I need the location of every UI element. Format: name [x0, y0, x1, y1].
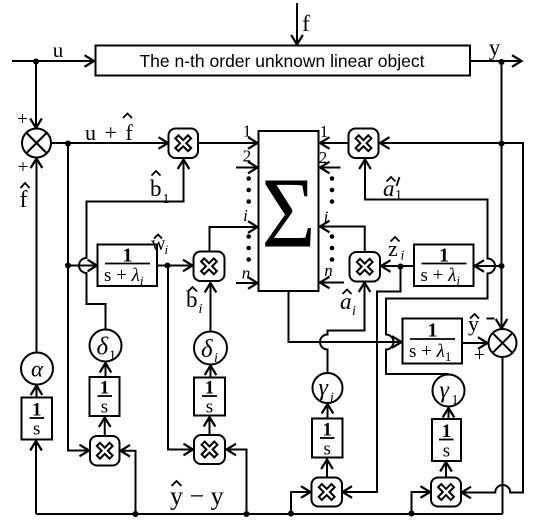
label w-hat-i	[151, 233, 169, 257]
wire MG1 to integrator I3	[321, 460, 333, 478]
wire integrator I2 to delta-i	[205, 366, 217, 378]
multiplier M3 (y times a1-prime-hat)	[349, 129, 379, 159]
wire integrator I1 to delta-1	[100, 363, 112, 377]
integrator I2 1/s	[194, 378, 225, 418]
svg-text:n: n	[242, 264, 251, 283]
wire integrator I4 to gamma-1	[443, 408, 455, 419]
wire y output	[470, 55, 522, 67]
wire F2 output z-hat-i into M4	[381, 260, 414, 272]
svg-text:s + λi: s + λi	[104, 265, 144, 288]
integrator I1 1/s	[90, 377, 120, 418]
wire error bottom bus	[36, 513, 503, 515]
label y-hat minus y	[170, 481, 224, 511]
circle delta-1	[90, 330, 122, 364]
node w-hat-i branch	[165, 263, 171, 269]
circle delta-i	[194, 332, 227, 367]
filter F3 1/(s+lambda_1)	[403, 319, 463, 365]
node error to MG1	[288, 511, 294, 517]
node error to MD2	[244, 511, 250, 517]
svg-text:1: 1	[109, 349, 116, 364]
svg-text:+: +	[17, 109, 28, 130]
svg-text:δ: δ	[201, 336, 213, 363]
svg-text:+: +	[18, 157, 29, 178]
svg-text:i: i	[243, 206, 248, 225]
svg-text:i: i	[165, 242, 169, 257]
stub arrow sigma left input 2	[236, 162, 258, 174]
stub arrow sigma left input n	[236, 277, 258, 289]
integrator I4 1/s	[432, 419, 461, 462]
svg-text:b: b	[150, 176, 162, 201]
wire M4 output to sigma right input i	[320, 221, 365, 252]
node error to MG2	[409, 511, 415, 517]
svg-text:i: i	[352, 304, 356, 319]
svg-text:The n-th order unknown linear: The n-th order unknown linear object	[139, 51, 424, 71]
multiplier M1 (u+f times b1)	[169, 129, 199, 159]
svg-text:α: α	[31, 357, 44, 382]
svg-text:f: f	[20, 187, 28, 213]
svg-text:y: y	[489, 35, 501, 60]
label u + f-hat	[85, 114, 134, 146]
summer S1	[22, 129, 51, 158]
wire F3 output y-hat to S2	[462, 337, 488, 349]
wire M3 output to sigma right input 1	[320, 137, 349, 149]
multiplier MD2 (delta-i loop)	[194, 435, 225, 464]
label a1-prime-hat	[383, 176, 402, 203]
svg-text:u + f: u + f	[85, 120, 134, 145]
wire error up into I5	[30, 441, 42, 514]
svg-text:i: i	[214, 351, 218, 366]
svg-text:s: s	[33, 419, 40, 440]
circle gamma-i	[313, 373, 343, 406]
svg-text:1: 1	[395, 188, 402, 203]
node z-hat-i branch	[398, 264, 404, 270]
svg-text:+: +	[474, 344, 485, 366]
node u+f branch	[65, 141, 71, 147]
wire S2 error output down	[502, 357, 504, 514]
stub arrow sigma right input 2	[320, 162, 341, 174]
wire a-hat-i from gamma-i to M4	[320, 283, 370, 373]
wire alpha output f-hat to S1	[31, 159, 43, 353]
wire y feedback down right side	[496, 62, 508, 329]
wire b1-hat from delta1 to M1	[79, 160, 189, 330]
svg-text:i: i	[199, 302, 203, 317]
wire error up into MD1 right	[121, 445, 136, 514]
multiplier M4 (z-hat-i times a-hat-i)	[350, 252, 381, 282]
label y-hat	[468, 311, 479, 336]
wire error up into MD2 right	[227, 444, 247, 514]
svg-text:f: f	[302, 11, 310, 36]
dots sigma right upper	[330, 176, 335, 204]
svg-text:s: s	[206, 397, 213, 418]
dots sigma left lower	[246, 234, 251, 262]
svg-text:1: 1	[243, 122, 252, 141]
svg-text:s: s	[324, 439, 331, 460]
wire integrator I3 to gamma-i	[322, 404, 334, 419]
wire y into right lambda-i filter	[475, 260, 502, 272]
wire error up into MG1 left	[291, 486, 311, 513]
filter F1 1/(s+lambda_i) left	[98, 245, 158, 289]
node error to MD1	[133, 511, 139, 517]
wire u+f branch down	[67, 144, 69, 266]
wire u input	[12, 55, 94, 67]
wire integrator I5 to alpha	[31, 386, 43, 398]
svg-text:Σ: Σ	[261, 157, 315, 268]
svg-text:i: i	[330, 391, 334, 406]
svg-text:u: u	[53, 38, 64, 62]
wire MD2 to integrator I2	[204, 417, 216, 435]
svg-text:s + λi: s + λi	[421, 265, 461, 288]
integrator I5 1/s	[22, 398, 53, 440]
wire b-hat-i from delta-i to M2	[205, 283, 217, 332]
summation block Sigma	[259, 131, 319, 291]
stub arrow sigma right input n	[320, 277, 344, 289]
dots sigma right lower	[330, 234, 335, 262]
wire F1 output w-hat-i	[157, 260, 193, 272]
label z-hat-i	[388, 236, 405, 264]
svg-text:y − y: y − y	[170, 482, 224, 511]
wire y to gamma-1 multiplier	[462, 143, 524, 498]
circle alpha	[21, 353, 53, 385]
wire MD1 to integrator I1	[99, 418, 111, 437]
integrator I3 1/s	[312, 419, 343, 460]
filter F2 1/(s+lambda_i) right	[414, 245, 474, 289]
wire S1 output u+f	[51, 137, 168, 149]
wire sigma output to lambda-1 filter	[289, 291, 402, 348]
wire error up into MG2 left	[412, 486, 431, 513]
wire into left lambda-i filter	[68, 260, 97, 272]
svg-text:s: s	[101, 397, 108, 418]
svg-text:s: s	[443, 441, 450, 462]
label a-hat-i	[340, 289, 356, 319]
node y to M3	[499, 141, 505, 147]
wire y into M3 right	[380, 137, 502, 149]
svg-text:γ: γ	[440, 378, 450, 404]
node y branch	[499, 59, 505, 65]
wire a1-prime-hat from gamma-1 to M3	[359, 160, 495, 375]
svg-text:δ: δ	[97, 334, 109, 361]
wire u+f down into MD1 left	[68, 266, 89, 457]
dots sigma left upper	[246, 176, 251, 204]
wire M1 output to sigma input 1	[198, 137, 258, 149]
svg-text:1: 1	[452, 393, 459, 408]
wire MG2 to integrator I4	[440, 462, 452, 478]
svg-text:γ: γ	[319, 375, 329, 401]
node u branch	[33, 59, 39, 65]
summer S2	[489, 329, 517, 357]
wire M2 output to sigma input i	[210, 221, 258, 251]
node u+f to lambda-i filter	[65, 263, 71, 269]
node y to lambda-i filter	[499, 263, 505, 269]
label minus at S2	[487, 318, 495, 320]
multiplier MD1 (delta-1 loop)	[90, 436, 120, 466]
wire u down to summer	[30, 62, 42, 129]
circle gamma-1	[433, 375, 465, 409]
wire f input	[291, 3, 303, 45]
multiplier MG2 (gamma-1 loop)	[431, 478, 461, 507]
multiplier MG1 (gamma-i loop)	[312, 478, 343, 507]
svg-text:i: i	[401, 249, 405, 264]
label b1-hat	[150, 171, 170, 207]
svg-text:1: 1	[163, 192, 170, 207]
multiplier M2 (w-hat-i times b-hat-i)	[194, 252, 225, 282]
wire w-hat-i down into MD2 left	[168, 266, 193, 456]
wire z-hat-i feedback down to MG1	[343, 267, 401, 498]
plant box: the n-th order unknown linear object	[96, 46, 471, 76]
label b-hat-i	[186, 287, 203, 317]
label f-hat	[20, 183, 30, 213]
